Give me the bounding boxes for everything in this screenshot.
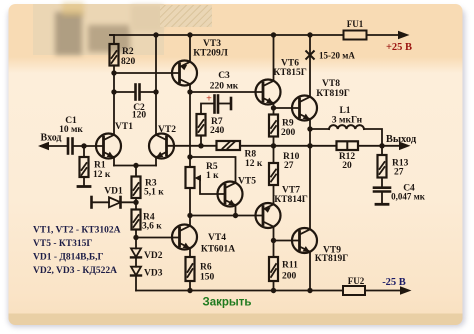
svg-text:Закрыть: Закрыть [203, 297, 252, 309]
svg-text:КТ815Г: КТ815Г [273, 68, 307, 78]
svg-text:КТ819Г: КТ819Г [315, 254, 349, 264]
node C2 left [111, 89, 116, 94]
wire VT8 collector [309, 35, 311, 97]
svg-text:27: 27 [394, 168, 404, 178]
wire output line [240, 145, 337, 147]
resistor R11 [269, 241, 278, 291]
node VT3 collector [187, 89, 192, 94]
svg-text:VT8: VT8 [322, 79, 340, 89]
node VT5 emitter [233, 213, 238, 218]
node VT7 collector / R11 / VT9 base [271, 238, 276, 243]
svg-text:820: 820 [121, 57, 136, 67]
wire VT9 collector line [309, 129, 311, 229]
fuse FU2 [343, 286, 400, 295]
wire VT2 base / feedback line [167, 145, 217, 147]
wire VT4 base [136, 237, 180, 239]
node output / R13 [379, 143, 384, 148]
svg-text:VT2: VT2 [158, 125, 176, 135]
resistor R3 [132, 166, 141, 203]
node R5 bottom / VT4 collector [187, 213, 192, 218]
node R9 bottom / R10 top [271, 143, 276, 148]
resistor R10 [269, 146, 278, 205]
svg-text:VD1 - Д814В,Б,Г: VD1 - Д814В,Б,Г [33, 253, 104, 263]
svg-text:VD2, VD3 - КД522А: VD2, VD3 - КД522А [33, 266, 117, 276]
ground under C4 [376, 203, 388, 206]
svg-text:1 к: 1 к [206, 171, 219, 181]
svg-text:220 мк: 220 мк [210, 82, 239, 92]
svg-text:C3: C3 [218, 71, 230, 81]
diode VD3 [131, 257, 141, 290]
node emitters VT1 VT2 [133, 163, 138, 168]
svg-text:+: + [206, 94, 212, 105]
resistor R12 [337, 141, 383, 150]
svg-text:R11: R11 [282, 261, 298, 271]
resistor R2 [110, 35, 119, 73]
fuse FU1 [344, 31, 367, 40]
node VT9 emitter on rail [307, 288, 312, 293]
svg-text:10 мк: 10 мк [59, 125, 83, 135]
svg-text:0,047 мк: 0,047 мк [391, 192, 426, 202]
svg-text:VT7: VT7 [282, 186, 300, 196]
resistor R9 [269, 108, 278, 146]
node R3 / R4 / VD1 [133, 200, 138, 205]
svg-text:VT4: VT4 [208, 233, 226, 243]
svg-text:VD2: VD2 [144, 251, 163, 261]
wire -25V bottom rail [136, 290, 343, 292]
svg-text:200: 200 [281, 128, 296, 138]
wire VT9 base [274, 240, 300, 242]
wire VT5 collector [190, 157, 236, 183]
resistor R4 [132, 202, 141, 237]
node R6 bottom [187, 288, 192, 293]
resistor R1 [80, 146, 89, 186]
node output x310 [307, 143, 312, 148]
svg-text:КТ209Л: КТ209Л [193, 49, 228, 59]
svg-text:R9: R9 [282, 119, 294, 129]
svg-text:Выход: Выход [386, 134, 417, 145]
svg-text:VT5: VT5 [238, 177, 256, 187]
svg-text:150: 150 [200, 273, 215, 283]
svg-text:VD1: VD1 [104, 187, 123, 197]
capacitor C2 [114, 85, 156, 100]
resistor R7 [197, 114, 206, 146]
resistor R8 [217, 141, 241, 150]
ground under R1 [78, 185, 90, 188]
svg-text:VT6: VT6 [281, 59, 299, 69]
svg-text:FU1: FU1 [347, 19, 364, 29]
svg-text:КТ819Г: КТ819Г [316, 89, 350, 99]
wire VT8 base [274, 107, 300, 109]
svg-text:VT3: VT3 [203, 39, 221, 49]
capacitor C4 [374, 188, 390, 204]
transistor VT4 [172, 216, 197, 258]
svg-text:VT1: VT1 [115, 122, 133, 132]
svg-text:R8: R8 [245, 150, 257, 160]
svg-text:-25 В: -25 В [382, 277, 406, 288]
svg-text:27: 27 [284, 161, 294, 171]
node VT8 emitter / L1 [307, 126, 312, 131]
diode VD2 [131, 238, 141, 258]
svg-text:3 мкГн: 3 мкГн [332, 116, 363, 126]
svg-text:12 к: 12 к [93, 170, 111, 180]
svg-text:200: 200 [282, 272, 297, 282]
svg-text:+25 В: +25 В [386, 42, 412, 53]
transistor VT8 [292, 96, 317, 130]
svg-text:R1: R1 [94, 161, 106, 171]
svg-text:VT1, VT2 - КТ3102А: VT1, VT2 - КТ3102А [33, 226, 121, 236]
svg-text:VD3: VD3 [144, 269, 163, 279]
node rail x273 [271, 32, 276, 37]
wire bias chain vertical [189, 92, 191, 167]
transistor VT7 [256, 203, 281, 241]
input arrow [38, 142, 68, 150]
transistor VT6 [256, 35, 281, 108]
svg-text:120: 120 [132, 111, 147, 121]
node rail x190 [187, 32, 192, 37]
node R4 / VD2 / VT4 base [133, 235, 138, 240]
svg-text:КТ601А: КТ601А [201, 245, 235, 255]
node rail x156 [153, 32, 158, 37]
svg-text:12 к: 12 к [245, 159, 263, 169]
transistor VT2 [136, 134, 174, 166]
wire +25V top rail [110, 34, 344, 36]
transistor VT3 [172, 61, 197, 93]
transistor VT5 [218, 182, 243, 216]
capacitor C3 [201, 96, 231, 115]
diode VD1 [92, 197, 137, 208]
svg-text:240: 240 [210, 126, 225, 136]
inductor L1 [310, 125, 382, 146]
trimmer R5 [186, 167, 226, 216]
transistor VT9 [292, 228, 317, 291]
svg-text:20: 20 [342, 161, 352, 171]
resistor R6 [186, 257, 195, 291]
node rail-R2 corner [110, 34, 114, 36]
current break X 15-20 mA [306, 51, 314, 59]
node R11 bottom [271, 288, 276, 293]
resistor R13 [378, 146, 387, 188]
node rail x310 [307, 32, 312, 37]
wire R2 bottom to C2 node [113, 73, 115, 92]
wire bias node to VT7 base [190, 215, 263, 217]
wire VT2 collector to rail [155, 35, 157, 135]
node VT1 collector / R2 bottom [111, 70, 116, 75]
svg-text:3,6 к: 3,6 к [142, 222, 162, 232]
svg-text:5,1 к: 5,1 к [144, 188, 164, 198]
-25V arrow [400, 286, 412, 295]
+25V arrow [398, 31, 410, 40]
node C2 right on VT2 collector line [153, 89, 158, 94]
node C1 / R1 [81, 143, 86, 148]
svg-text:FU2: FU2 [348, 276, 365, 286]
node R7 bottom [198, 143, 203, 148]
svg-text:R2: R2 [122, 47, 134, 57]
svg-text:VT5 - КТ315Г: VT5 - КТ315Г [33, 239, 92, 249]
svg-text:R6: R6 [200, 263, 212, 273]
wire VT3 base [114, 72, 180, 74]
wire VT3 emitter to rail [189, 35, 191, 62]
output arrow [382, 142, 411, 151]
svg-text:L1: L1 [339, 106, 350, 116]
svg-text:КТ814Г: КТ814Г [274, 195, 308, 205]
transistor VT1 [96, 92, 136, 166]
wire VT3 collector to VT6 base [190, 91, 263, 93]
capacitor C1 [68, 139, 104, 154]
svg-text:Вход: Вход [41, 133, 62, 144]
node VT5 collector tap [187, 154, 192, 159]
svg-text:15-20 мА: 15-20 мА [319, 51, 355, 61]
node VT6 emitter / VT8 base [271, 105, 276, 110]
